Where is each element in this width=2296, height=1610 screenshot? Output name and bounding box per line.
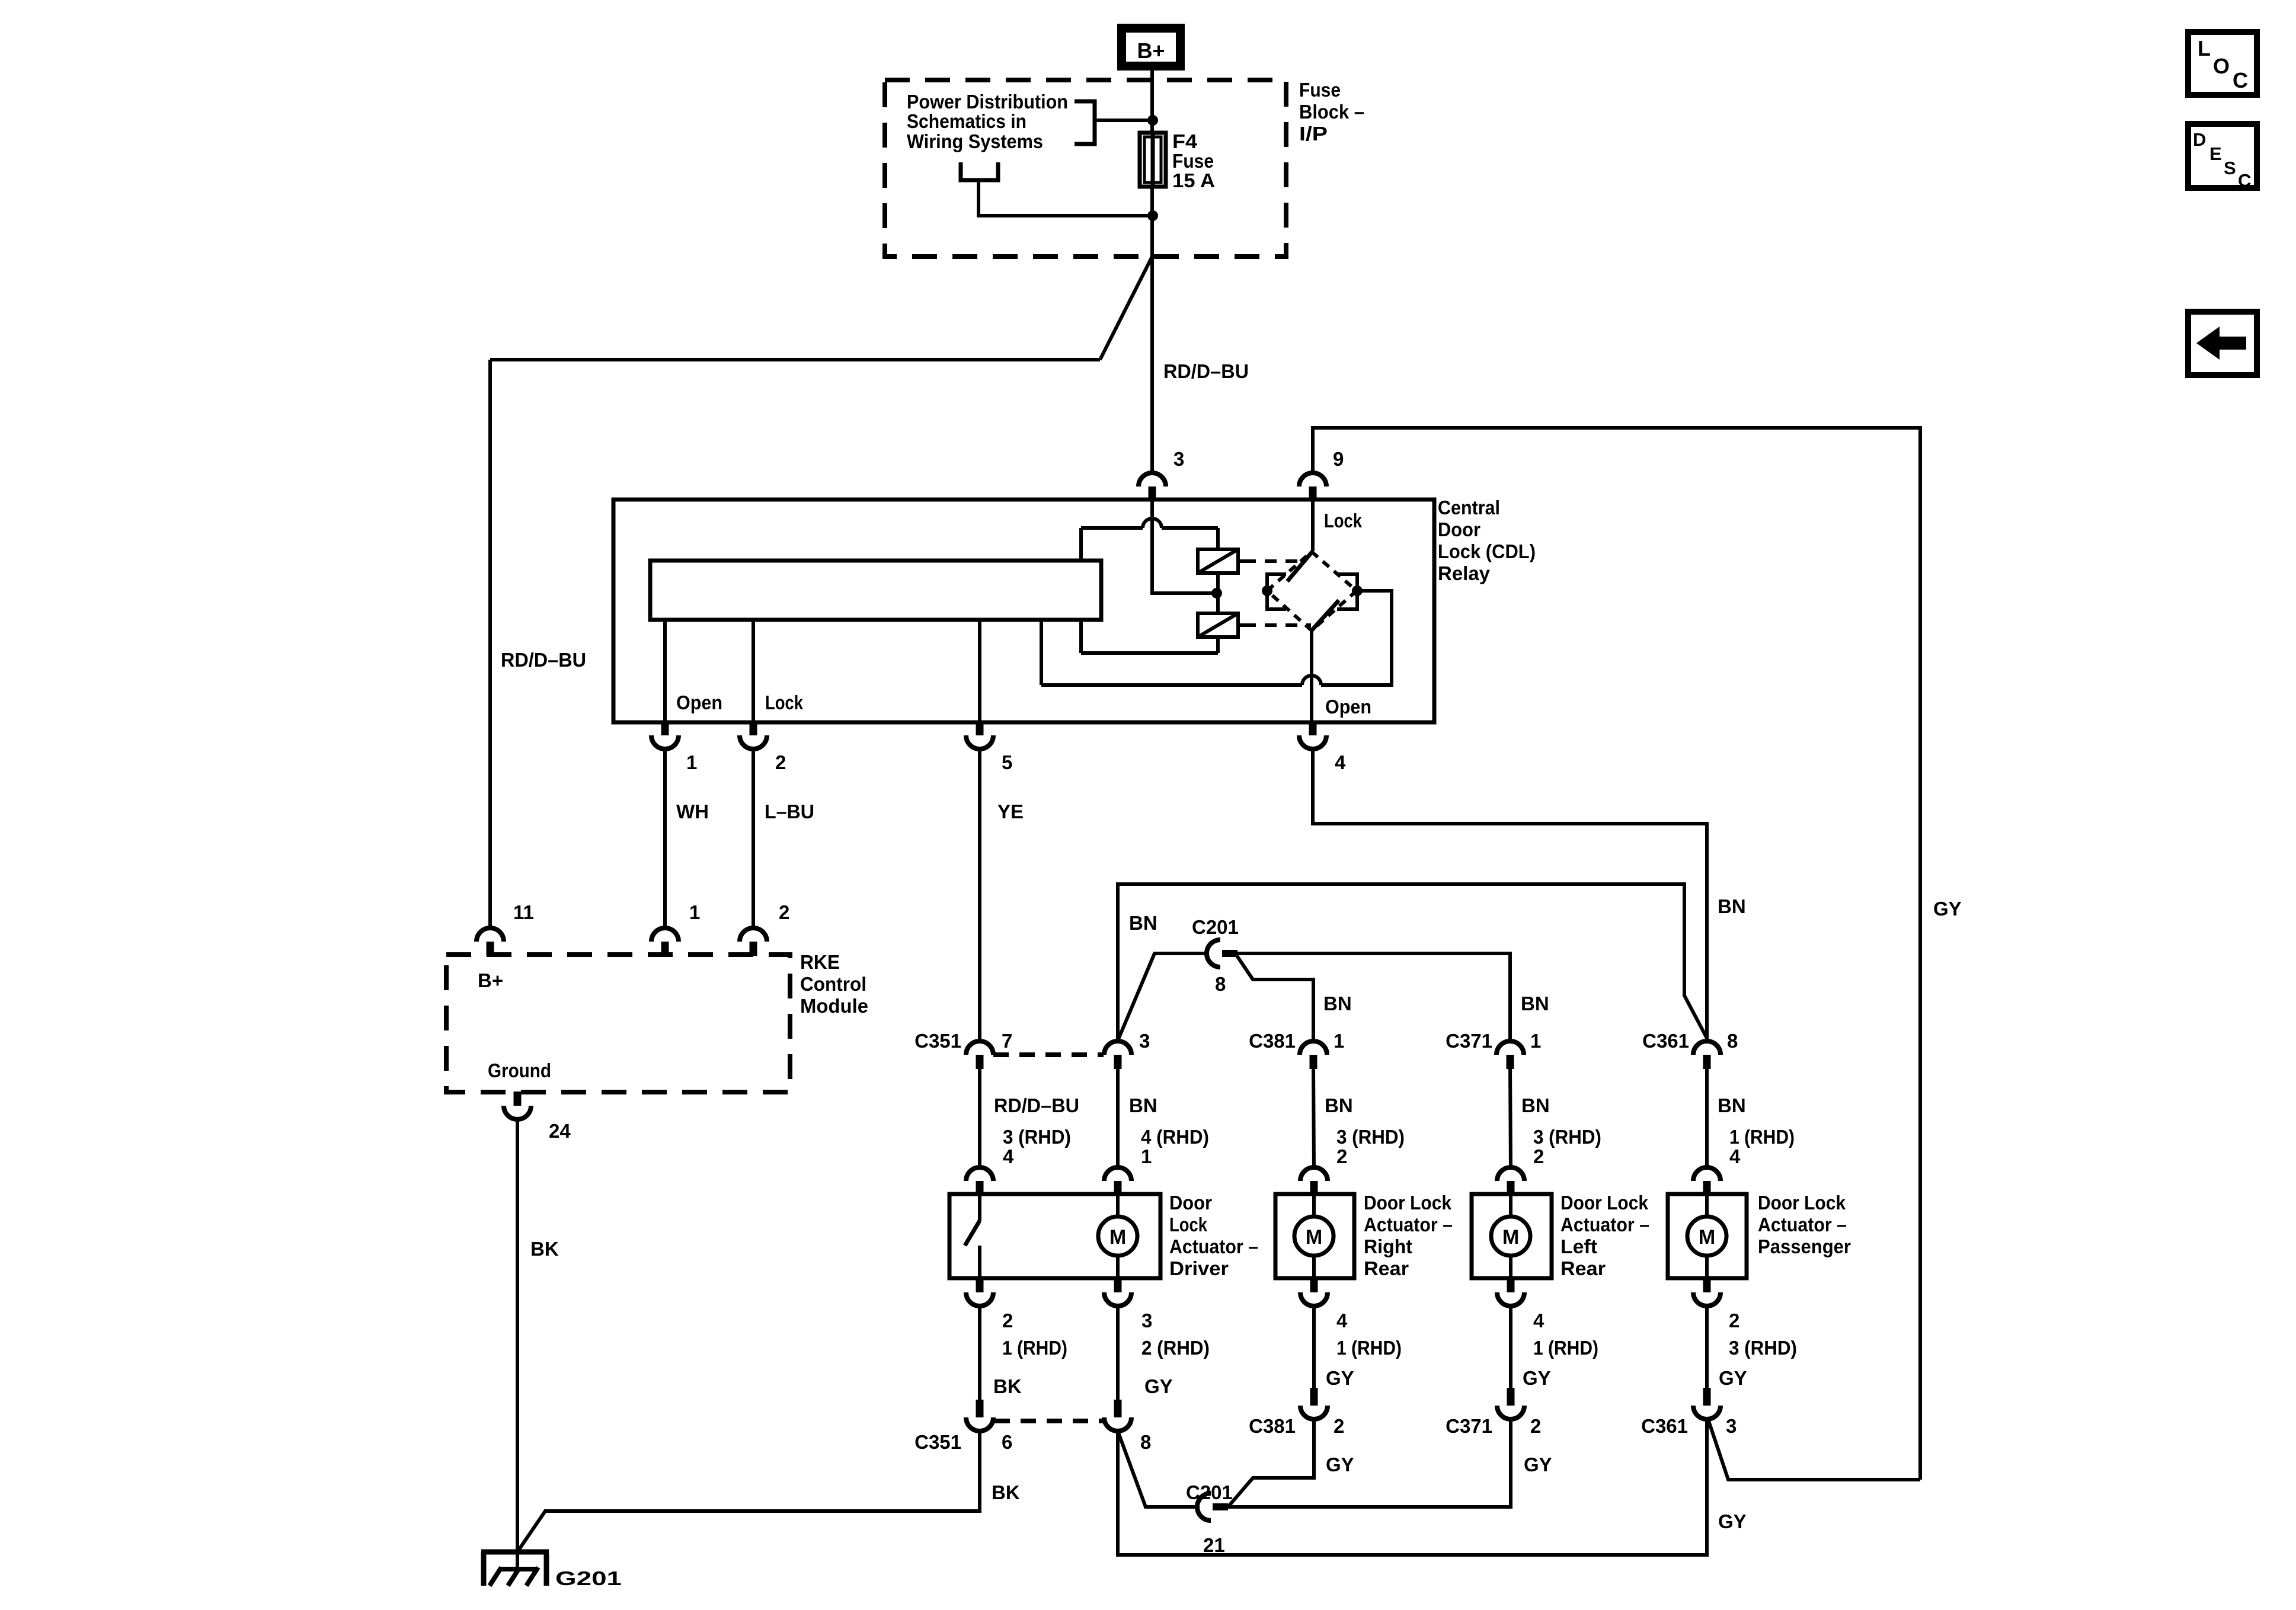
svg-text:C361: C361	[1641, 1415, 1688, 1437]
svg-text:BN: BN	[1325, 1094, 1353, 1116]
wire RD/D-BU C351-7 to driver pin 4	[978, 1068, 981, 1167]
svg-text:Control: Control	[800, 973, 866, 995]
svg-text:8: 8	[1215, 973, 1226, 995]
svg-text:1 (RHD): 1 (RHD)	[1336, 1337, 1402, 1359]
driver pin 3 (bottom)	[1114, 1278, 1122, 1292]
wire BK C351-6 to ground	[519, 1431, 980, 1550]
relay pin 5 (bottom)	[976, 721, 984, 735]
RKE pin 1 (top)	[651, 928, 679, 942]
Door Lock Actuator Right Rear box	[1275, 1194, 1354, 1278]
svg-text:C351: C351	[914, 1030, 961, 1052]
label Power Distribution Schematics in Wiring Systems	[907, 91, 1068, 152]
label RKE Control Module	[800, 951, 868, 1017]
svg-text:Door Lock: Door Lock	[1364, 1192, 1452, 1214]
wire BK RKE pin 24 to ground	[516, 1120, 519, 1569]
wire bracket to node A	[1095, 119, 1153, 122]
svg-text:1: 1	[1141, 1145, 1152, 1167]
svg-text:2: 2	[775, 751, 786, 773]
connector C351 pin 7	[966, 1041, 993, 1055]
svg-text:RD/D–BU: RD/D–BU	[501, 649, 586, 671]
wire armature to pin 2	[752, 620, 755, 722]
labels passenger bottom column	[1719, 1310, 1797, 1389]
svg-text:I/P: I/P	[1299, 123, 1328, 145]
svg-text:1: 1	[686, 751, 697, 773]
label Door Lock Actuator Left Rear	[1560, 1192, 1649, 1279]
svg-text:B+: B+	[478, 969, 503, 991]
wire armature to pin 5	[978, 620, 981, 722]
label Fuse Block I/P	[1299, 79, 1364, 145]
fuse F4 15A	[1140, 133, 1166, 187]
svg-text:M: M	[1699, 1226, 1715, 1249]
svg-text:1 (RHD): 1 (RHD)	[1533, 1337, 1598, 1359]
wire GY driver pin3 to pin 8	[1116, 1306, 1120, 1400]
switch lever lock side	[1287, 551, 1313, 581]
svg-text:Block –: Block –	[1299, 101, 1364, 123]
wire C201-21 to C371-2	[1228, 1419, 1511, 1507]
wire pin 8 to C201-21	[1118, 1431, 1197, 1507]
svg-text:Actuator –: Actuator –	[1560, 1214, 1649, 1235]
dashed connector tie C351-7 to pin 3	[993, 1052, 1104, 1057]
svg-text:Fuse: Fuse	[1299, 79, 1341, 101]
svg-text:3 (RHD): 3 (RHD)	[1336, 1126, 1405, 1148]
relay pin 9 (top)	[1299, 473, 1326, 486]
wire C201-21 to C381-2	[1228, 1419, 1314, 1507]
ground G201	[481, 1552, 549, 1586]
svg-text:Actuator –: Actuator –	[1364, 1214, 1453, 1235]
driver pin 4 (top)	[966, 1167, 993, 1181]
wire to C201-8	[1118, 953, 1207, 1041]
RKE pin 24 (bottom)	[514, 1092, 522, 1106]
back arrow icon	[2188, 312, 2257, 375]
svg-text:2: 2	[1533, 1145, 1544, 1167]
connector pin 8 (driver branch)	[1114, 1400, 1122, 1417]
node B junction below fuse	[1147, 210, 1158, 221]
svg-text:GY: GY	[1523, 1367, 1551, 1389]
right rear pin 4 (bottom)	[1310, 1278, 1318, 1292]
svg-text:M: M	[1109, 1226, 1126, 1249]
svg-text:Rear: Rear	[1364, 1257, 1409, 1279]
svg-text:7: 7	[1002, 1030, 1012, 1052]
svg-text:BN: BN	[1129, 912, 1157, 934]
svg-text:BN: BN	[1323, 993, 1352, 1014]
svg-text:Door Lock: Door Lock	[1758, 1192, 1846, 1214]
motor M driver	[1098, 1194, 1137, 1278]
svg-text:21: 21	[1203, 1534, 1225, 1556]
svg-text:YE: YE	[997, 801, 1024, 822]
svg-text:3: 3	[1141, 1310, 1152, 1331]
svg-text:1 (RHD): 1 (RHD)	[1002, 1337, 1067, 1359]
svg-text:Wiring Systems: Wiring Systems	[907, 130, 1043, 152]
wire B+ vertical feed to CDL relay pin 3	[1150, 71, 1154, 473]
wire C201-8 to C381-1	[1237, 956, 1313, 1041]
relay coil loop	[1081, 528, 1218, 653]
node left contact	[1262, 585, 1272, 596]
Fuse Block - I/P dashed box	[885, 80, 1286, 257]
relay coil L2 (open)	[1198, 613, 1244, 637]
node A junction above fuse	[1147, 115, 1158, 126]
relay pin 4 (bottom)	[1309, 721, 1317, 735]
svg-text:Door: Door	[1169, 1192, 1212, 1214]
label F4 Fuse 15 A	[1172, 130, 1215, 191]
wire open contact to pin 4	[1310, 630, 1313, 722]
RKE pin 2 (top)	[740, 928, 767, 942]
label Door Lock Actuator Right Rear	[1364, 1192, 1453, 1279]
wire bracket to node B	[978, 180, 1153, 216]
svg-text:1: 1	[1334, 1030, 1344, 1052]
wire GY passenger pin2 to C361-3	[1705, 1306, 1709, 1388]
connector C201 pin 8	[1207, 940, 1220, 967]
svg-text:8: 8	[1140, 1431, 1151, 1453]
connector C201 pin 21	[1197, 1493, 1211, 1521]
svg-text:Lock: Lock	[765, 692, 804, 713]
svg-text:Door: Door	[1438, 518, 1480, 540]
svg-text:Module: Module	[800, 995, 868, 1017]
driver door switch	[965, 1194, 980, 1278]
wire pin3 internal to coil junction	[1152, 500, 1217, 593]
Door Lock Actuator Left Rear box	[1472, 1194, 1552, 1278]
wire GY right rear pin4 to C381-2	[1312, 1306, 1316, 1388]
svg-text:4: 4	[1335, 751, 1346, 773]
LOC icon	[2188, 32, 2257, 95]
labels driver pin2 column	[993, 1310, 1067, 1397]
wire GY left rear pin4 to C371-2	[1509, 1306, 1512, 1388]
svg-text:BN: BN	[1718, 1094, 1746, 1116]
wire pin9 internal to lock contact	[1311, 500, 1315, 551]
connector C371 pin 1	[1496, 1041, 1524, 1055]
svg-text:F4: F4	[1172, 130, 1198, 152]
wire feedback to armature bar	[1040, 620, 1043, 685]
label Central Door Lock (CDL) Relay	[1438, 497, 1536, 584]
labels driver pin4 column	[994, 1094, 1079, 1167]
wire L-BU pin2 to RKE	[752, 750, 755, 928]
svg-text:BN: BN	[1521, 1094, 1550, 1116]
wire RD/D-BU horizontal run left	[490, 358, 1100, 361]
svg-text:BK: BK	[530, 1238, 559, 1260]
svg-text:1 (RHD): 1 (RHD)	[1729, 1126, 1795, 1148]
wire GY from pin 9 around right side	[1313, 428, 1920, 1480]
wire WH pin1 to RKE	[663, 750, 667, 928]
svg-text:L–BU: L–BU	[765, 801, 814, 822]
svg-text:Open: Open	[676, 692, 722, 713]
left contact bracket	[1267, 574, 1286, 609]
svg-text:E: E	[2209, 143, 2222, 164]
svg-text:9: 9	[1333, 448, 1344, 470]
wire right contact feedback loop	[1321, 591, 1392, 685]
svg-text:M: M	[1502, 1226, 1519, 1249]
relay pin 1 (bottom)	[661, 721, 669, 735]
wire C361-3 to right GY riser	[1708, 1419, 1920, 1480]
svg-text:2: 2	[779, 901, 789, 923]
wire BN to driver pin 1	[1116, 1068, 1120, 1167]
svg-text:C: C	[2233, 68, 2248, 92]
svg-text:Schematics in: Schematics in	[907, 110, 1027, 132]
wire BN pin4 down to C361-8	[1313, 750, 1707, 1041]
Door Lock Actuator Passenger box	[1668, 1194, 1747, 1278]
label Door Lock Actuator Passenger	[1758, 1192, 1851, 1257]
switch lever open side	[1312, 600, 1339, 630]
svg-text:GY: GY	[1719, 1367, 1747, 1389]
svg-text:Passenger: Passenger	[1758, 1235, 1851, 1257]
svg-text:1: 1	[689, 901, 700, 923]
wire BK driver pin2 to C351-6	[978, 1306, 981, 1400]
connector C361 pin 8	[1693, 1041, 1721, 1055]
svg-text:C381: C381	[1249, 1415, 1296, 1437]
svg-text:Ground: Ground	[488, 1060, 551, 1081]
svg-text:3 (RHD): 3 (RHD)	[1533, 1126, 1601, 1148]
svg-text:C201: C201	[1186, 1481, 1233, 1503]
svg-text:15 A: 15 A	[1172, 169, 1215, 191]
svg-text:C371: C371	[1446, 1030, 1492, 1052]
svg-text:C371: C371	[1446, 1415, 1492, 1437]
connector C381 pin 2	[1310, 1388, 1318, 1406]
svg-text:B+: B+	[1137, 39, 1165, 63]
svg-text:Fuse: Fuse	[1172, 150, 1214, 172]
svg-text:Central: Central	[1438, 497, 1500, 518]
svg-text:GY: GY	[1326, 1367, 1354, 1389]
dashed actuation link from L1	[1244, 559, 1304, 563]
B+ battery terminal box	[1117, 24, 1185, 71]
svg-text:BN: BN	[1129, 1094, 1157, 1116]
svg-text:4: 4	[1336, 1310, 1348, 1331]
svg-text:6: 6	[1002, 1431, 1012, 1453]
connector pin 3 (driver branch)	[1104, 1041, 1131, 1055]
DESC icon	[2188, 124, 2257, 191]
right rear pin 2 (top)	[1300, 1167, 1328, 1181]
svg-text:Open: Open	[1325, 696, 1371, 718]
connector C351 pin 6	[976, 1400, 984, 1417]
svg-text:1: 1	[1530, 1030, 1541, 1052]
relay pin 2 (bottom)	[750, 721, 757, 735]
labels passenger top column	[1718, 1094, 1795, 1167]
hop crossover on feedback wire	[1302, 676, 1321, 685]
svg-text:RKE: RKE	[800, 951, 840, 973]
label Door Lock Actuator Driver	[1169, 1192, 1258, 1279]
svg-text:Lock: Lock	[1324, 510, 1363, 532]
svg-text:Power Distribution: Power Distribution	[907, 91, 1068, 113]
svg-text:Lock (CDL): Lock (CDL)	[1438, 540, 1536, 562]
svg-text:Rear: Rear	[1560, 1257, 1606, 1279]
svg-text:8: 8	[1727, 1030, 1738, 1052]
svg-text:2 (RHD): 2 (RHD)	[1141, 1337, 1210, 1359]
wire RD/D-BU diagonal branch to RKE	[1100, 257, 1152, 360]
svg-text:2: 2	[1336, 1145, 1347, 1167]
svg-text:4: 4	[1003, 1145, 1014, 1167]
left rear pin 2 (top)	[1497, 1167, 1524, 1181]
passenger pin 4 (top)	[1693, 1167, 1721, 1181]
svg-text:3: 3	[1173, 448, 1184, 470]
wire BN to right rear pin 2	[1313, 1068, 1314, 1167]
svg-text:G201: G201	[555, 1567, 622, 1589]
right contact bracket	[1337, 574, 1357, 609]
svg-text:3 (RHD): 3 (RHD)	[1003, 1126, 1071, 1148]
svg-text:C351: C351	[914, 1431, 961, 1453]
RKE Control Module dashed box	[446, 955, 790, 1092]
svg-text:Door Lock: Door Lock	[1560, 1192, 1649, 1214]
svg-text:C381: C381	[1249, 1030, 1296, 1052]
connector C361 pin 3	[1703, 1388, 1711, 1406]
wire BN horizontal tie	[1118, 884, 1707, 1041]
relay armature bar (white)	[650, 561, 1101, 620]
svg-text:C: C	[2238, 170, 2251, 191]
dashed connector tie C351-6 to pin 8	[994, 1419, 1103, 1423]
svg-text:S: S	[2224, 158, 2236, 178]
wire C201-8 to C371-1	[1237, 953, 1510, 1041]
svg-text:GY: GY	[1326, 1454, 1354, 1475]
svg-text:3: 3	[1139, 1030, 1150, 1052]
labels driver pin3 column	[1141, 1310, 1210, 1397]
svg-text:C361: C361	[1642, 1030, 1689, 1052]
svg-text:3: 3	[1726, 1415, 1737, 1437]
motor M right rear	[1294, 1194, 1334, 1278]
off-page bracket below fuse	[961, 162, 998, 180]
driver pin 2 (bottom)	[976, 1278, 984, 1292]
svg-text:2: 2	[1002, 1310, 1013, 1331]
svg-text:5: 5	[1002, 751, 1012, 773]
node coil junction	[1211, 588, 1222, 598]
svg-text:GY: GY	[1933, 898, 1962, 920]
svg-text:WH: WH	[676, 801, 709, 822]
left rear pin 4 (bottom)	[1507, 1278, 1515, 1292]
RKE pin 11 (top)	[477, 928, 504, 942]
svg-text:BN: BN	[1718, 895, 1746, 917]
labels right rear bottom column	[1326, 1310, 1402, 1389]
svg-text:2: 2	[1729, 1310, 1739, 1331]
svg-text:Relay: Relay	[1438, 562, 1491, 584]
labels left rear top column	[1521, 1094, 1601, 1167]
wire RD/D-BU vertical down to RKE pin 11	[488, 360, 492, 928]
svg-text:M: M	[1306, 1226, 1322, 1249]
svg-text:3 (RHD): 3 (RHD)	[1729, 1337, 1797, 1359]
svg-text:GY: GY	[1718, 1510, 1747, 1532]
svg-text:Driver: Driver	[1169, 1257, 1229, 1279]
relay pin 3 (top)	[1139, 473, 1166, 486]
svg-text:Lock: Lock	[1169, 1214, 1208, 1235]
dashed actuation link from L2	[1244, 623, 1311, 627]
svg-text:GY: GY	[1524, 1454, 1552, 1475]
hop crossover on coil loop edge	[1143, 518, 1162, 528]
wire pin 8 to bus	[1118, 1419, 1707, 1555]
svg-text:4: 4	[1729, 1145, 1741, 1167]
svg-text:Left: Left	[1560, 1235, 1597, 1257]
relay coil L1 (lock)	[1198, 549, 1244, 573]
labels left rear bottom column	[1523, 1310, 1598, 1389]
off-page bracket to power distribution	[1075, 101, 1095, 144]
svg-text:D: D	[2193, 129, 2206, 150]
svg-text:2: 2	[1334, 1415, 1344, 1437]
svg-text:Actuator –: Actuator –	[1758, 1214, 1847, 1235]
svg-text:Actuator –: Actuator –	[1169, 1235, 1258, 1257]
wire BN to passenger pin 4	[1705, 1068, 1709, 1167]
svg-text:2: 2	[1530, 1415, 1541, 1437]
wire YE pin5 to C351-7	[978, 750, 981, 1041]
svg-text:O: O	[2213, 54, 2230, 78]
Door Lock Actuator Driver box	[949, 1194, 1160, 1278]
svg-text:4: 4	[1533, 1310, 1544, 1331]
driver pin 1 (top)	[1104, 1167, 1131, 1181]
wire BN to left rear pin 2	[1510, 1068, 1511, 1167]
Central Door Lock CDL Relay box	[613, 500, 1434, 722]
connector C371 pin 2	[1507, 1388, 1515, 1406]
svg-text:Right: Right	[1364, 1235, 1412, 1257]
switch diamond dashed outline	[1267, 552, 1357, 630]
svg-text:24: 24	[549, 1120, 571, 1142]
svg-text:BN: BN	[1521, 993, 1549, 1014]
connector C381 pin 1	[1300, 1041, 1327, 1055]
node right contact	[1352, 585, 1363, 596]
labels driver pin1 column	[1129, 1094, 1209, 1167]
svg-text:BK: BK	[992, 1481, 1020, 1503]
svg-text:RD/D–BU: RD/D–BU	[994, 1094, 1079, 1116]
svg-text:4 (RHD): 4 (RHD)	[1141, 1126, 1209, 1148]
svg-text:RD/D–BU: RD/D–BU	[1163, 360, 1249, 382]
wire armature to pin 1	[663, 620, 667, 722]
passenger pin 2 (bottom)	[1703, 1278, 1711, 1292]
svg-text:BK: BK	[993, 1375, 1022, 1397]
motor M passenger	[1687, 1194, 1726, 1278]
svg-text:GY: GY	[1144, 1375, 1173, 1397]
svg-text:C201: C201	[1192, 916, 1239, 938]
labels right rear top column	[1325, 1094, 1405, 1167]
motor M left rear	[1491, 1194, 1530, 1278]
svg-text:11: 11	[513, 901, 534, 923]
svg-text:L: L	[2198, 36, 2211, 60]
